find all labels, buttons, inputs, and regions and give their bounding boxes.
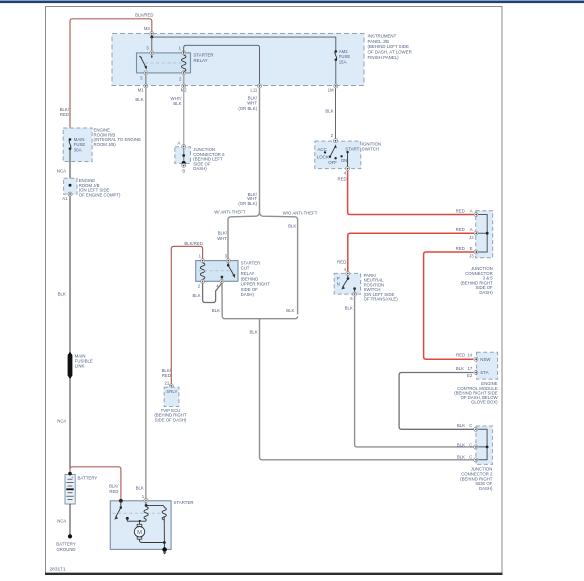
TVIP ECU box xyxy=(164,387,179,406)
svg-text:A: A xyxy=(470,227,473,232)
svg-text:A: A xyxy=(177,141,180,146)
wire relay pin2 to M2 xyxy=(183,75,185,85)
junction connector 3&5 box xyxy=(476,211,493,258)
park/neutral switch pin 5 xyxy=(350,292,356,301)
svg-text:J3: J3 xyxy=(469,254,474,259)
svg-text:SIDE OF DASH): SIDE OF DASH) xyxy=(155,417,187,422)
svg-text:IGNITION: IGNITION xyxy=(362,141,381,146)
starter case ground xyxy=(162,547,167,554)
wire inside J/C6 xyxy=(183,149,185,164)
starter pull-in coil xyxy=(144,507,148,522)
svg-text:BLK: BLK xyxy=(286,308,294,313)
svg-text:BLK: BLK xyxy=(345,305,353,310)
svg-text:30A: 30A xyxy=(74,147,82,152)
svg-text:OF DASH, AT LOWER: OF DASH, AT LOWER xyxy=(368,50,412,55)
svg-text:RED: RED xyxy=(60,112,69,117)
svg-text:WHT: WHT xyxy=(217,236,227,241)
starter relay switch arm xyxy=(139,55,152,70)
node A connector (J/C 3&5 mid) xyxy=(456,227,478,240)
park/neutral switch pin 4 xyxy=(344,267,350,275)
svg-text:DASH): DASH) xyxy=(479,486,493,491)
svg-text:(BEHIND: (BEHIND xyxy=(241,276,259,281)
svg-text:(OR BLK): (OR BLK) xyxy=(238,201,257,206)
wire M3 dot to relay pin 3 xyxy=(151,37,153,53)
starter box xyxy=(110,501,171,550)
node A connector (J/C 3&5 top) xyxy=(456,208,478,216)
svg-text:14: 14 xyxy=(467,353,472,358)
svg-text:BLK: BLK xyxy=(457,454,465,459)
svg-text:BLK: BLK xyxy=(457,442,465,447)
wire BLK park/neutral to junction connector 2 xyxy=(355,296,474,447)
node C connector (J/C2 bottom) xyxy=(457,454,478,462)
ignition switch pin 4 xyxy=(344,167,350,176)
svg-text:P: P xyxy=(337,276,340,281)
svg-text:DASH): DASH) xyxy=(193,166,207,171)
node L11 connector xyxy=(250,84,261,93)
ignition switch box xyxy=(315,141,361,169)
wire fuse to 1M connector xyxy=(335,60,337,86)
svg-text:FINISH PANEL): FINISH PANEL) xyxy=(368,55,400,60)
svg-text:BLK: BLK xyxy=(457,423,465,428)
svg-text:BLK: BLK xyxy=(192,293,200,298)
junction dots J/C6 xyxy=(182,154,185,157)
svg-text:15A: 15A xyxy=(339,59,347,64)
starter cut relay pin 2 xyxy=(198,279,205,288)
svg-text:GLOVE BOX): GLOVE BOX) xyxy=(471,399,498,404)
starter solenoid contact (BLK/RED side) xyxy=(114,501,122,520)
starter internal junction xyxy=(145,504,148,507)
svg-text:21: 21 xyxy=(165,381,170,386)
svg-text:LOCK: LOCK xyxy=(317,154,329,159)
svg-text:RED: RED xyxy=(456,246,465,251)
node M2 connector xyxy=(181,84,188,93)
starter relay pin 2 xyxy=(179,71,186,82)
svg-text:DASH): DASH) xyxy=(479,290,493,295)
wire BLK/WHT L11 down to split xyxy=(259,88,261,210)
wire M3 to fuse AM2 (inside J/B) xyxy=(152,35,336,51)
svg-text:STA: STA xyxy=(480,370,488,375)
svg-text:RED: RED xyxy=(456,227,465,232)
wire BLK ECM STA to junction connector 2 xyxy=(399,373,474,430)
svg-text:C: C xyxy=(469,423,472,428)
svg-text:BLK/RED: BLK/RED xyxy=(184,241,202,246)
starter wire to hold-in coil xyxy=(146,505,164,507)
starter cut relay pin 1 xyxy=(199,253,205,262)
wire relay pin5 to M1 xyxy=(145,75,147,85)
svg-text:BLK: BLK xyxy=(136,486,144,491)
node A1 connector xyxy=(62,192,72,201)
junction dot inside engine room J/B xyxy=(69,184,72,187)
svg-text:BLK: BLK xyxy=(212,308,220,313)
starter relay pin 3 xyxy=(146,45,154,55)
wire BLK M1 to starter xyxy=(145,88,147,498)
svg-text:B: B xyxy=(182,168,185,173)
svg-text:OF TRANSAXLE): OF TRANSAXLE) xyxy=(364,297,399,302)
svg-text:NCA: NCA xyxy=(57,169,66,174)
svg-text:NCA: NCA xyxy=(57,418,66,423)
svg-text:OF ENGINE COMPT): OF ENGINE COMPT) xyxy=(79,192,121,197)
svg-text:RED: RED xyxy=(456,208,465,213)
starter cut relay pin 3 xyxy=(225,253,231,262)
starter BLK/RED entry junction xyxy=(119,499,123,503)
svg-text:RED: RED xyxy=(337,259,346,264)
wire BLK relay pin2 U-loop to pin 4 xyxy=(203,283,222,302)
wire BLK/RED TVIP to relay pin 1 xyxy=(171,246,202,384)
park/neutral switch positions xyxy=(337,276,356,292)
svg-text:SIDE OF: SIDE OF xyxy=(241,287,259,292)
svg-text:RED: RED xyxy=(338,176,347,181)
starter motor ground wire xyxy=(140,517,165,549)
starter motor M xyxy=(134,521,144,539)
svg-text:E: E xyxy=(470,246,473,251)
ignition switch position ON xyxy=(340,155,347,163)
wire RED junction connector to ECM NSW xyxy=(424,252,474,359)
junction dot under M3 xyxy=(150,36,153,39)
svg-text:(OR BLK): (OR BLK) xyxy=(238,106,257,111)
wire relay pin1 to L11 xyxy=(184,45,260,85)
ignition switch position START xyxy=(345,146,359,167)
wire WHT/BLK M2 to junction connector 6 xyxy=(183,88,185,146)
starter cut relay coil xyxy=(200,263,205,279)
battery ground node xyxy=(56,534,76,551)
svg-text:ROOM J/B): ROOM J/B) xyxy=(94,142,117,147)
wire BLK relay pin4 down xyxy=(221,284,223,317)
ECM box xyxy=(477,352,498,379)
starter cut relay box xyxy=(196,261,238,282)
svg-text:GROUND: GROUND xyxy=(56,547,75,552)
wire BLK 1M to ignition switch xyxy=(335,88,337,140)
ignition switch arm (LOCK to pin) xyxy=(329,144,337,158)
node C connector (J/C2 mid) xyxy=(457,442,478,449)
node 1M connector xyxy=(328,84,338,93)
wire battery to ground xyxy=(69,504,71,536)
fuse AM2 15A xyxy=(335,49,351,64)
starter relay dashed link xyxy=(145,62,182,64)
svg-text:A: A xyxy=(470,208,473,213)
svg-text:J2: J2 xyxy=(469,235,474,240)
starter relay pin 5 xyxy=(140,71,148,81)
svg-text:BLK: BLK xyxy=(456,366,464,371)
main fusible link xyxy=(68,352,93,378)
starter relay pin 1 xyxy=(179,45,186,55)
starter hold-in coil xyxy=(162,507,166,520)
svg-text:NSW: NSW xyxy=(480,357,491,362)
wire RED junction connector to park/neutral switch xyxy=(348,233,474,271)
starter relay coil xyxy=(181,55,186,72)
anti-theft split node xyxy=(228,211,298,315)
svg-text:C: C xyxy=(469,454,472,459)
svg-text:INSTRUMENT: INSTRUMENT xyxy=(368,34,397,39)
junction connector 3&5 internal bus xyxy=(478,215,487,253)
svg-text:RED: RED xyxy=(162,373,171,378)
park/neutral position switch box xyxy=(334,273,360,294)
svg-text:DASH): DASH) xyxy=(241,292,255,297)
starter cut relay dashed link xyxy=(199,270,234,272)
starter dashed link xyxy=(113,512,162,514)
junction dot battery positive xyxy=(68,472,72,476)
svg-text:E2: E2 xyxy=(467,373,473,378)
starter contact bar to motor xyxy=(126,517,146,523)
wire BLK/RED battery to starter xyxy=(70,467,121,501)
svg-text:START: START xyxy=(345,146,359,151)
node M3 connector xyxy=(144,26,154,35)
svg-text:283171: 283171 xyxy=(50,567,66,573)
instrument panel J/B box xyxy=(112,34,364,86)
ignition switch position OFF xyxy=(328,157,337,165)
svg-text:PANEL J/B: PANEL J/B xyxy=(368,39,390,44)
battery xyxy=(65,474,97,504)
junction connector 2 box xyxy=(476,426,493,464)
engine room R/B box xyxy=(63,128,92,162)
node M1 connector xyxy=(138,84,148,93)
node C connector (J/C2 top) xyxy=(457,423,478,431)
svg-text:OFF: OFF xyxy=(328,160,337,165)
svg-text:BLK: BLK xyxy=(173,101,181,106)
svg-text:STARTER: STARTER xyxy=(194,53,214,58)
ECM pin NSW xyxy=(474,357,491,362)
svg-text:W/ ANTI-THEFT: W/ ANTI-THEFT xyxy=(214,209,246,214)
starter pin 1 connector xyxy=(142,494,148,502)
svg-text:RELAY: RELAY xyxy=(194,58,208,63)
svg-text:C: C xyxy=(469,442,472,447)
svg-text:BLK: BLK xyxy=(135,97,143,102)
anti-theft merge node xyxy=(222,316,297,457)
svg-text:RED: RED xyxy=(109,489,118,494)
svg-text:CUT: CUT xyxy=(241,266,250,271)
svg-text:RED: RED xyxy=(456,353,465,358)
svg-text:W/O ANTI-THEFT: W/O ANTI-THEFT xyxy=(283,210,318,215)
svg-text:(BEHIND LEFT SIDE: (BEHIND LEFT SIDE xyxy=(368,44,409,49)
starter cut relay switch xyxy=(221,263,236,279)
svg-text:SRLY: SRLY xyxy=(166,389,177,394)
svg-text:BLK: BLK xyxy=(288,224,296,229)
junction connector 6 box xyxy=(175,147,191,164)
svg-text:RELAY: RELAY xyxy=(241,271,255,276)
svg-text:STARTER: STARTER xyxy=(174,500,194,505)
svg-text:LINK: LINK xyxy=(75,363,85,368)
svg-text:BLK: BLK xyxy=(325,108,333,113)
drawing frame xyxy=(46,7,503,574)
fuse MAIN 30A xyxy=(69,137,86,152)
svg-text:BLK/RED: BLK/RED xyxy=(135,13,153,18)
TVIP ECU connector pin 21 xyxy=(169,384,173,388)
wire BLK/RED top feed (left column to M3) xyxy=(70,19,152,140)
engine room J/B box xyxy=(64,178,77,194)
drawing frame bottom edge xyxy=(45,573,503,575)
starter relay U1 box xyxy=(137,53,191,73)
page top bar xyxy=(0,1,584,4)
svg-text:17: 17 xyxy=(468,366,473,371)
svg-text:BATTERY: BATTERY xyxy=(78,476,98,481)
svg-text:M3: M3 xyxy=(144,26,151,31)
node A connector (J/C6) xyxy=(177,141,185,149)
node B connector (J/C6) xyxy=(182,163,186,173)
wire BLK left column (fuse to battery) xyxy=(69,149,71,474)
svg-text:N: N xyxy=(337,282,340,287)
starter cut relay pin 4 xyxy=(216,279,224,288)
svg-text:A1: A1 xyxy=(62,196,68,201)
svg-text:BLK: BLK xyxy=(58,292,66,297)
wire RED ignition to junction connector 3&5 pin A xyxy=(348,171,474,215)
wire BLK merged anti-theft to junction connector 2 xyxy=(260,457,475,459)
junction connector 2 internal bus xyxy=(478,429,487,460)
svg-text:STARTER: STARTER xyxy=(241,260,261,265)
ECM pin STA xyxy=(456,366,489,378)
svg-text:ON: ON xyxy=(341,158,348,163)
svg-text:UPPER RIGHT: UPPER RIGHT xyxy=(241,282,271,287)
svg-text:M: M xyxy=(137,530,142,536)
svg-text:BLK: BLK xyxy=(249,329,257,334)
svg-text:M1: M1 xyxy=(138,88,145,93)
svg-text:SWITCH: SWITCH xyxy=(362,147,379,152)
node E connector (J/C 3&5 bottom) xyxy=(456,246,478,259)
ignition switch position ACC xyxy=(318,147,327,153)
svg-text:1M: 1M xyxy=(328,88,334,93)
svg-text:L11: L11 xyxy=(250,88,257,93)
svg-text:NCA: NCA xyxy=(57,519,66,524)
ignition switch pin 2 xyxy=(331,133,338,143)
